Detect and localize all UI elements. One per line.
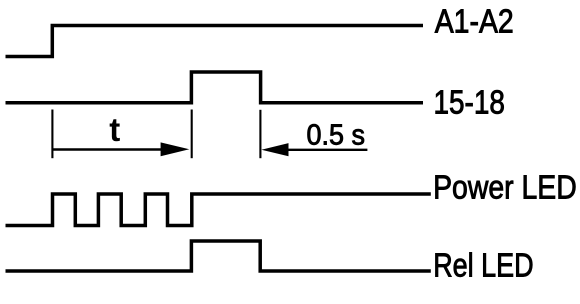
svg-text:0.5 s: 0.5 s [307, 119, 365, 151]
svg-text:Power LED: Power LED [433, 169, 577, 207]
svg-text:t: t [109, 111, 120, 148]
svg-text:15-18: 15-18 [434, 84, 505, 121]
svg-text:Rel LED: Rel LED [433, 248, 533, 284]
svg-text:A1-A2: A1-A2 [435, 2, 514, 39]
